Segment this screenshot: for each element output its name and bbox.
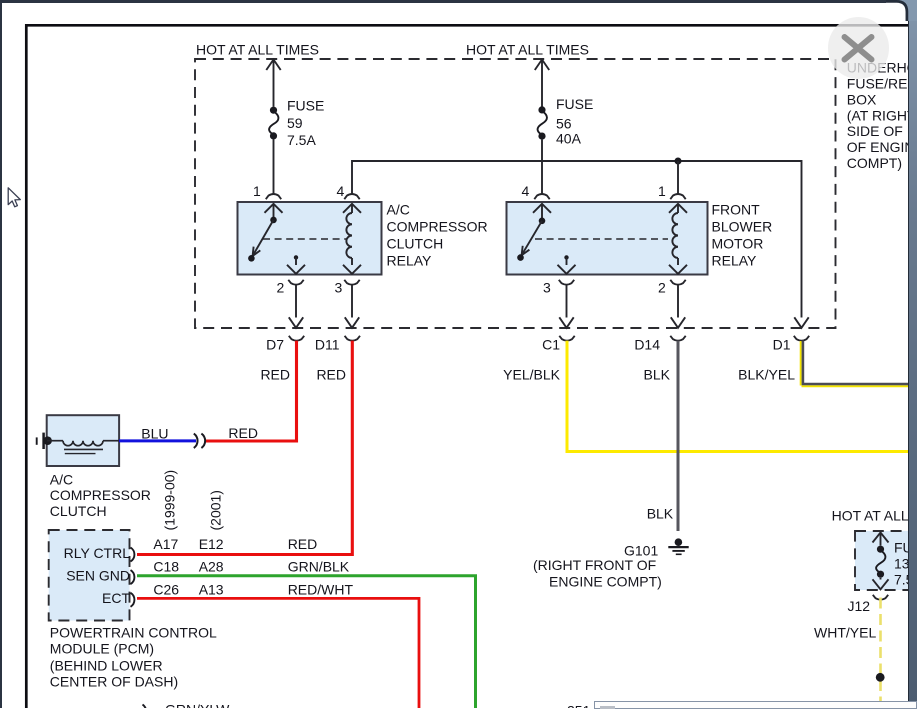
relay K1 A/C compressor clutch relay [238, 202, 382, 275]
svg-text:A/C: A/C [387, 201, 410, 217]
svg-text:7.5A: 7.5A [287, 132, 316, 148]
relay1 dashed actuator line [263, 238, 347, 240]
wire: relay pin to box edge x=678 [677, 285, 679, 318]
inline connector [194, 434, 198, 448]
window chrome: rounded top-right corner [886, 0, 917, 21]
svg-text:CLUTCH: CLUTCH [50, 503, 107, 519]
relay2 switch arm [533, 204, 551, 213]
svg-text:D1: D1 [773, 337, 791, 353]
svg-text:(BEHIND LOWER: (BEHIND LOWER [50, 657, 163, 673]
svg-text:OF ENGINE: OF ENGINE [847, 139, 917, 155]
svg-text:(2001): (2001) [208, 490, 224, 530]
relay1 coil [343, 204, 361, 213]
svg-text:1: 1 [658, 183, 666, 199]
junction node on WHT/YEL [876, 673, 885, 682]
fuse box dashed (right) [855, 531, 917, 590]
window chrome: top bar [0, 0, 898, 3]
wire: relay pin to box edge x=352 [351, 285, 353, 318]
svg-text:2: 2 [277, 279, 285, 295]
clipped connector bottom left [143, 705, 147, 709]
svg-text:MOTOR: MOTOR [712, 235, 764, 251]
svg-text:SEN GND: SEN GND [66, 567, 130, 583]
svg-text:RED: RED [288, 536, 318, 552]
svg-text:C1: C1 [542, 337, 560, 353]
svg-text:GRN/BLK: GRN/BLK [288, 559, 350, 575]
svg-text:ECT: ECT [102, 590, 130, 606]
connector C1 [559, 336, 574, 341]
svg-text:BLU: BLU [141, 425, 168, 441]
junction node [675, 158, 682, 165]
A/C compressor clutch [47, 415, 119, 466]
wire: relay pin to box edge x=566.5 [566, 285, 568, 318]
svg-text:(AT RIGHT: (AT RIGHT [847, 107, 916, 123]
svg-text:WHT/YEL: WHT/YEL [814, 625, 876, 641]
relay2 coil [669, 204, 687, 213]
fuse 56 40A [538, 106, 545, 113]
relay1 switch arm [265, 204, 283, 213]
svg-text:3: 3 [335, 279, 343, 295]
connector D14 [670, 336, 685, 341]
svg-text:COMPT): COMPT) [847, 155, 902, 171]
tooltip box bottom right [594, 701, 917, 709]
svg-text:A13: A13 [199, 581, 224, 597]
svg-text:RED: RED [228, 425, 258, 441]
svg-text:BLOWER: BLOWER [712, 218, 773, 234]
svg-text:251: 251 [567, 703, 591, 709]
wire BLK from D14 to G101 [677, 341, 680, 531]
wire: relay pin to box edge x=296 [295, 285, 297, 318]
relay2 pin 3 stub [564, 255, 568, 259]
wire BLU [119, 439, 196, 442]
connector D1 [794, 336, 809, 341]
close button [828, 17, 889, 78]
clutch plates symbol [36, 437, 38, 444]
svg-text:59: 59 [287, 115, 303, 131]
relay K2 front blower motor relay [507, 202, 708, 275]
wire RED from D7 to splice [206, 341, 297, 441]
svg-text:SIDE OF: SIDE OF [847, 123, 903, 139]
wire: hot feed to fuse 59 [266, 60, 280, 71]
wire: fuse 56 to relay pin 4 [541, 140, 543, 194]
wire GRN/BLK from SEN GND [137, 576, 476, 708]
wire YEL/BLK from C1 [567, 341, 908, 452]
wire BLK/YEL from D1 [800, 341, 802, 386]
pin 3 connector [559, 280, 574, 285]
svg-text:D7: D7 [266, 337, 284, 353]
relay1 pin 2 stub [294, 255, 298, 259]
svg-text:A28: A28 [199, 559, 224, 575]
svg-text:RELAY: RELAY [712, 252, 758, 268]
svg-text:BLK/YEL: BLK/YEL [738, 366, 795, 382]
svg-text:BLK: BLK [644, 366, 671, 382]
svg-text:FRONT: FRONT [712, 201, 761, 217]
svg-text:1: 1 [253, 183, 261, 199]
svg-text:BOX: BOX [847, 91, 877, 107]
wire: hot feed to fuse 56 [535, 60, 549, 71]
svg-text:D14: D14 [634, 337, 660, 353]
fuse 59 7.5A [270, 107, 277, 114]
svg-text:C18: C18 [153, 559, 179, 575]
svg-text:COMPRESSOR: COMPRESSOR [50, 487, 151, 503]
underhood fuse/relay box (dashed) [195, 59, 836, 328]
pin 3 connector [344, 280, 359, 285]
connector D7 [289, 336, 304, 341]
connector J12 [873, 595, 888, 600]
svg-text:COMPRESSOR: COMPRESSOR [387, 218, 488, 234]
svg-text:RED: RED [260, 366, 290, 382]
svg-text:D11: D11 [315, 337, 340, 353]
clutch core bars [64, 448, 103, 450]
mouse cursor [7, 187, 23, 211]
svg-text:RLY CTRL: RLY CTRL [64, 545, 131, 561]
clutch coil [47, 440, 63, 442]
wire: junction to relay2 pin 1 [677, 161, 679, 194]
wire: relay pin 4 link across to D1 [352, 161, 802, 318]
svg-text:RED/WHT: RED/WHT [288, 581, 354, 597]
svg-text:YEL/BLK: YEL/BLK [503, 366, 560, 382]
svg-text:ENGINE COMPT): ENGINE COMPT) [549, 573, 662, 589]
pin 2 connector [670, 280, 685, 285]
svg-text:A/C: A/C [50, 472, 73, 488]
svg-text:RELAY: RELAY [387, 252, 433, 268]
PCM dashed box [49, 530, 130, 621]
pin 1 connector [670, 194, 685, 199]
connector D11 [345, 336, 360, 341]
svg-text:POWERTRAIN CONTROL: POWERTRAIN CONTROL [50, 624, 217, 640]
svg-text:MODULE (PCM): MODULE (PCM) [50, 641, 154, 657]
ground G101 [675, 538, 683, 546]
window chrome: right strip [908, 0, 917, 708]
pin 1 connector [266, 194, 281, 199]
svg-text:(1999-00): (1999-00) [162, 470, 178, 531]
wire RED/WHT from ECT [137, 598, 419, 708]
svg-text:FUSE: FUSE [287, 98, 324, 114]
svg-text:40A: 40A [556, 131, 582, 147]
svg-text:HOT AT ALL TIMES: HOT AT ALL TIMES [832, 507, 917, 523]
svg-text:A17: A17 [153, 536, 178, 552]
svg-text:CLUTCH: CLUTCH [387, 235, 444, 251]
pin 2 connector [288, 280, 303, 285]
svg-text:RED: RED [316, 366, 346, 382]
svg-text:3: 3 [543, 279, 551, 295]
svg-text:56: 56 [556, 115, 572, 131]
border frame [25, 24, 908, 27]
svg-text:4: 4 [337, 183, 345, 199]
svg-text:GRN/YLW: GRN/YLW [165, 702, 230, 709]
svg-text:4: 4 [522, 183, 530, 199]
svg-text:HOT AT ALL TIMES: HOT AT ALL TIMES [466, 41, 589, 57]
wire RED from D11 to PCM RLY CTRL [137, 341, 352, 555]
pin 4 connector [534, 194, 549, 199]
wire: fuse 59 to relay pin 1 [273, 139, 275, 194]
wire WHT/YEL dashed [879, 598, 882, 709]
svg-text:(RIGHT FRONT OF: (RIGHT FRONT OF [533, 557, 656, 573]
relay2 dashed actuator line [535, 238, 668, 240]
svg-text:FUSE: FUSE [556, 96, 593, 112]
pin 4 connector [344, 194, 359, 199]
svg-text:E12: E12 [199, 536, 224, 552]
svg-text:C26: C26 [153, 581, 179, 597]
fuse 13 7.5A [877, 546, 884, 553]
svg-text:HOT AT ALL TIMES: HOT AT ALL TIMES [196, 41, 319, 57]
svg-text:2: 2 [658, 279, 666, 295]
svg-text:J12: J12 [848, 598, 871, 614]
svg-text:BLK: BLK [647, 506, 674, 522]
svg-text:CENTER OF DASH): CENTER OF DASH) [50, 674, 178, 690]
